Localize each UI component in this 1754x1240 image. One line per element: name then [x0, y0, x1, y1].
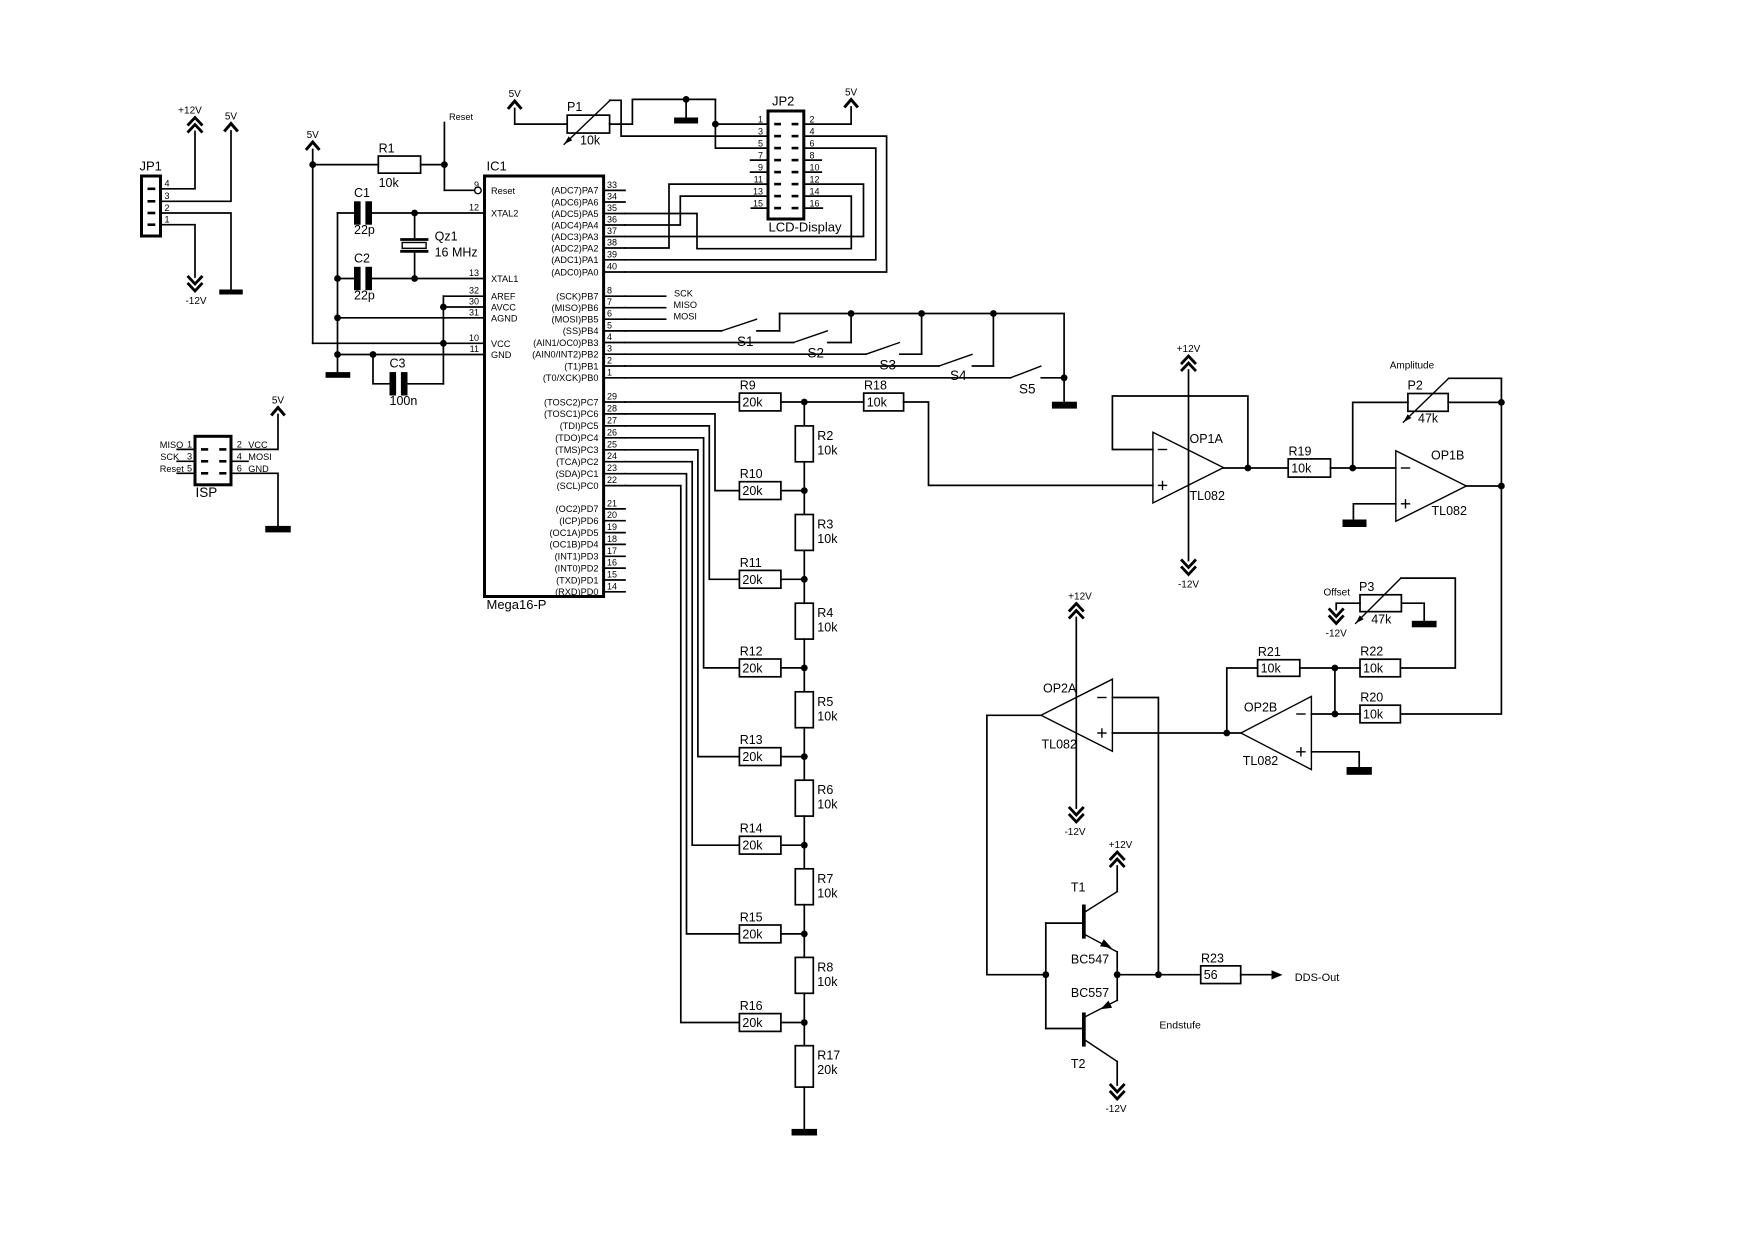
svg-text:OP2B: OP2B	[1244, 701, 1277, 715]
junction P2/output vertical	[1498, 399, 1505, 406]
reset bubble at IC1 pin 9	[475, 187, 482, 194]
svg-text:MISO: MISO	[160, 440, 183, 450]
svg-text:18: 18	[607, 534, 617, 544]
svg-text:R21: R21	[1258, 645, 1281, 659]
svg-text:10k: 10k	[817, 886, 838, 900]
svg-text:5V: 5V	[509, 89, 522, 100]
wire summing node vertical	[1334, 668, 1336, 714]
wire R20 left to OP2B inv	[1311, 713, 1360, 715]
svg-text:37: 37	[607, 226, 617, 236]
wire ladder segment above R7	[803, 845, 805, 869]
svg-text:AGND: AGND	[491, 313, 518, 323]
wire R13 to ladder	[781, 756, 804, 758]
wire PA3 to JP2 pin12	[625, 184, 864, 236]
wire PA4 to JP2 pin13	[625, 196, 768, 225]
svg-text:VCC: VCC	[248, 440, 268, 450]
svg-text:R9: R9	[740, 379, 756, 393]
power +12V (OP2A)	[1068, 592, 1092, 618]
wire ISP pin2 VCC to 5V	[231, 415, 278, 451]
wire gnd stub	[685, 99, 687, 117]
svg-text:10k: 10k	[1261, 662, 1282, 676]
net label SCK	[625, 289, 694, 299]
IC1 pin 27 (TDI)PC5	[560, 415, 625, 431]
wire OP1A supply vertical	[1188, 370, 1190, 561]
svg-text:(AIN1/OC0)PB3: (AIN1/OC0)PB3	[533, 338, 598, 348]
resistor R23 56	[1201, 951, 1241, 983]
svg-text:Qz1: Qz1	[435, 230, 458, 244]
svg-text:(TCA)PC2: (TCA)PC2	[556, 457, 598, 467]
resistor R17 20k	[795, 1046, 840, 1087]
svg-text:+12V: +12V	[178, 106, 202, 117]
svg-text:38: 38	[607, 238, 617, 248]
svg-text:5V: 5V	[272, 396, 285, 407]
svg-text:5V: 5V	[225, 112, 238, 123]
svg-text:32: 32	[469, 286, 479, 296]
ISP pin 3 SCK stub	[160, 452, 195, 463]
svg-text:20k: 20k	[742, 661, 763, 675]
IC1 pin 18 (OC1B)PD4	[549, 534, 625, 550]
svg-text:R18: R18	[864, 379, 887, 393]
wire PB1 to S4	[625, 365, 939, 367]
IC1 pin 24 (TCA)PC2	[556, 451, 625, 467]
wire OP1B output vertical to R20	[1400, 378, 1501, 714]
wire GND row	[338, 354, 485, 356]
svg-text:1: 1	[607, 367, 612, 377]
junction ladder R11	[801, 576, 808, 583]
ground (ladder)	[792, 1129, 818, 1136]
svg-text:1: 1	[187, 440, 192, 450]
IC1 pin 26 (TDO)PC4	[555, 427, 625, 443]
junction S5/bus	[1061, 374, 1068, 381]
wire JP1 pin1 to -12V	[161, 225, 196, 277]
wire AGND row	[338, 317, 485, 319]
svg-text:GND: GND	[491, 350, 512, 360]
svg-text:S5: S5	[1019, 382, 1036, 397]
svg-text:21: 21	[607, 498, 617, 508]
svg-text:AREF: AREF	[491, 292, 516, 302]
wire 5V rail vertical to VCC	[312, 150, 314, 344]
resistor R3 10k	[795, 515, 838, 551]
wire PC2 to R14	[625, 462, 739, 846]
svg-text:R12: R12	[740, 644, 763, 658]
power -12V (JP1)	[185, 277, 206, 307]
junction S3 bus	[918, 310, 925, 317]
junction AGND	[334, 314, 341, 321]
node Reset (label)	[444, 112, 473, 190]
IC1 pin 40 (ADC0)PA0	[551, 262, 625, 278]
wire OP1A output	[1224, 467, 1289, 469]
junction 5V/R1	[309, 161, 316, 168]
potentiometer P3 47k	[1356, 578, 1402, 626]
svg-text:T2: T2	[1071, 1057, 1086, 1071]
svg-text:10k: 10k	[1291, 462, 1312, 476]
svg-text:10k: 10k	[580, 134, 601, 148]
svg-text:10k: 10k	[1363, 662, 1384, 676]
svg-text:C2: C2	[354, 251, 370, 265]
ground (OP2B+)	[1347, 767, 1372, 775]
svg-text:33: 33	[607, 180, 617, 190]
svg-text:Endstufe: Endstufe	[1159, 1019, 1201, 1031]
wire P2 wiper to output	[1449, 377, 1502, 379]
wire reset to IC pin 9	[444, 189, 474, 191]
svg-text:MISO: MISO	[674, 300, 697, 310]
svg-text:OP1A: OP1A	[1190, 432, 1224, 446]
svg-text:20k: 20k	[742, 573, 763, 587]
IC1 left pin 13 XTAL1	[469, 268, 518, 284]
junction ladder R12	[801, 665, 808, 672]
svg-text:R6: R6	[817, 783, 833, 797]
junction ladder R13	[801, 753, 808, 760]
svg-text:VCC: VCC	[491, 339, 511, 349]
wire R9 to ladder	[781, 401, 804, 403]
wire ladder segment above R5	[803, 668, 805, 692]
svg-text:R3: R3	[817, 518, 833, 532]
svg-text:(ICP)PD6: (ICP)PD6	[559, 516, 598, 526]
wire ladder segment below R4	[803, 639, 805, 668]
svg-text:20k: 20k	[742, 1016, 763, 1030]
svg-text:10k: 10k	[817, 709, 838, 723]
svg-text:(ADC5)PA5: (ADC5)PA5	[551, 209, 598, 219]
svg-text:47k: 47k	[1371, 613, 1392, 627]
power -12V (P3)	[1326, 610, 1347, 640]
svg-text:Reset: Reset	[449, 112, 473, 122]
svg-text:10k: 10k	[817, 975, 838, 989]
svg-text:19: 19	[607, 522, 617, 532]
IC1 pin 25 (TMS)PC3	[555, 439, 625, 455]
wire T2 emitter to output	[1116, 975, 1118, 1001]
wire ladder to R18	[804, 401, 863, 403]
potentiometer P1 10k	[564, 100, 610, 148]
svg-text:20k: 20k	[742, 839, 763, 853]
wire S1 to switch bus	[779, 314, 781, 331]
wire R10 to ladder	[781, 490, 804, 492]
junction JP2 pin1	[712, 121, 719, 128]
resistor R22 10k	[1360, 645, 1400, 677]
IC1 pin 7 (MISO)PB6	[552, 297, 625, 313]
wire P3 right to ground	[1401, 603, 1424, 621]
IC1 pin 39 (ADC1)PA1	[551, 249, 625, 265]
wire OP2A output to bases	[987, 715, 1046, 974]
svg-text:5V: 5V	[307, 130, 320, 141]
IC1 pin 14 (RXD)PD0	[555, 581, 625, 597]
JP2 pin15 stub	[751, 207, 768, 209]
svg-text:(OC1A)PD5: (OC1A)PD5	[549, 528, 598, 538]
svg-text:(ADC4)PA4: (ADC4)PA4	[551, 220, 598, 230]
switch S1	[722, 319, 780, 349]
wire S2 to bus	[850, 314, 852, 343]
wire 5V to P1 left	[515, 109, 568, 125]
svg-text:(ADC7)PA7: (ADC7)PA7	[551, 186, 598, 196]
op-amp OP2B TL082 (mirrored)	[1241, 696, 1312, 769]
svg-text:11: 11	[754, 174, 763, 184]
svg-text:XTAL1: XTAL1	[491, 274, 518, 284]
svg-text:35: 35	[607, 203, 617, 213]
wire P3 wiper to R22	[1400, 578, 1455, 668]
svg-text:2: 2	[237, 440, 242, 450]
svg-text:(TDO)PC4: (TDO)PC4	[555, 433, 598, 443]
wire OP2B output to OP2A non-inv	[1112, 732, 1241, 734]
svg-text:3: 3	[187, 452, 192, 462]
svg-text:14: 14	[810, 186, 820, 196]
power 5V (P1)	[509, 89, 522, 108]
svg-text:14: 14	[607, 581, 617, 591]
svg-text:-12V: -12V	[1326, 629, 1347, 640]
svg-text:28: 28	[607, 403, 617, 413]
IC1 pin 15 (TXD)PD1	[556, 570, 625, 586]
svg-text:4: 4	[810, 126, 815, 136]
ground (P3)	[1412, 621, 1437, 628]
wire JP1 pin3 to 5V	[161, 131, 232, 201]
wire OP2A supply vertical	[1075, 618, 1077, 809]
svg-text:+12V: +12V	[1068, 592, 1092, 603]
svg-text:T1: T1	[1071, 881, 1086, 895]
svg-text:R11: R11	[740, 556, 762, 570]
svg-text:13: 13	[469, 268, 479, 278]
svg-text:5: 5	[758, 138, 763, 148]
wire PA1 to JP2 pin6	[625, 148, 876, 260]
svg-text:R7: R7	[817, 872, 833, 886]
IC1 left pin 30 AVCC	[469, 297, 516, 313]
junction R21/R22 node	[1332, 665, 1339, 672]
svg-text:8: 8	[607, 286, 612, 296]
wire C3 left leg	[373, 355, 389, 384]
wire PA2 to JP2 pin11	[625, 184, 768, 248]
svg-text:10: 10	[810, 162, 820, 172]
junction OP1B output	[1498, 483, 1505, 490]
wire PB2 to S3	[625, 353, 866, 355]
JP2 pin10 stub	[804, 171, 822, 173]
svg-text:11: 11	[470, 344, 479, 354]
power -12V (OP1A)	[1178, 561, 1199, 591]
svg-text:22: 22	[607, 475, 617, 485]
IC1 pin 19 (OC1A)PD5	[549, 522, 625, 538]
svg-text:36: 36	[607, 215, 617, 225]
IC1 pin 23 (SDA)PC1	[556, 463, 625, 479]
svg-text:31: 31	[469, 307, 479, 317]
power 5V (JP1)	[225, 112, 238, 131]
svg-text:34: 34	[607, 192, 617, 202]
svg-text:5: 5	[607, 320, 612, 330]
wire R19 to OP1B inv	[1331, 467, 1396, 469]
svg-text:3: 3	[607, 344, 612, 354]
svg-text:-12V: -12V	[185, 296, 206, 307]
IC1 pin 20 (ICP)PD6	[559, 510, 625, 526]
IC1 pin 5 (SS)PB4	[563, 320, 625, 336]
wire PB0 to S5	[625, 377, 1011, 379]
wire ladder to R17	[803, 1023, 805, 1046]
IC1 pin 2 (T1)PB1	[564, 356, 625, 372]
svg-text:R17: R17	[817, 1049, 840, 1063]
wire PC4 to R12	[625, 438, 739, 668]
svg-text:10k: 10k	[817, 798, 838, 812]
svg-text:22p: 22p	[354, 223, 375, 237]
svg-text:4: 4	[165, 179, 170, 189]
svg-text:(ADC1)PA1: (ADC1)PA1	[551, 255, 598, 265]
svg-text:S4: S4	[950, 368, 967, 383]
svg-text:20k: 20k	[742, 750, 763, 764]
svg-text:P3: P3	[1359, 580, 1374, 594]
junction OP2B output/R21	[1223, 730, 1230, 737]
wire P3 left to -12V	[1336, 603, 1360, 609]
op-amp OP2A TL082 (mirrored)	[1041, 679, 1112, 751]
power +12V (T1)	[1109, 840, 1133, 866]
wire PA0 to JP2 pin4	[625, 136, 887, 272]
junction XTAL1/crystal	[411, 275, 418, 282]
svg-text:4: 4	[607, 332, 612, 342]
ISP pin 4 MOSI stub	[231, 452, 272, 463]
ground (OP1B+)	[1343, 520, 1367, 528]
ground (C1/C2/AGND)	[326, 372, 351, 378]
svg-text:16: 16	[810, 198, 820, 208]
svg-text:AVCC: AVCC	[491, 303, 516, 313]
svg-text:OP2A: OP2A	[1043, 682, 1077, 696]
wire cap ground vertical	[337, 213, 339, 372]
IC1 pin 28 (TOSC1)PC6	[544, 403, 625, 419]
wire PA5 to JP2 pin14	[625, 196, 851, 249]
svg-text:OP1B: OP1B	[1431, 449, 1464, 463]
wire ladder segment above R2	[803, 402, 805, 426]
wire base rail vertical	[1045, 923, 1047, 1028]
svg-text:(SS)PB4: (SS)PB4	[563, 326, 599, 336]
wire JP1 pin2 to GND	[161, 213, 232, 290]
switch S5	[1011, 366, 1065, 396]
svg-text:R13: R13	[740, 733, 763, 747]
svg-text:29: 29	[607, 392, 617, 402]
svg-text:IC1: IC1	[487, 159, 507, 174]
svg-text:(T1)PB1: (T1)PB1	[564, 361, 598, 371]
junction GND row	[334, 351, 341, 358]
capacitor C2 22p	[354, 251, 375, 302]
JP2 pin9 stub	[751, 171, 768, 173]
IC1 left pin 11 GND	[470, 344, 512, 360]
junction R1/reset	[441, 161, 448, 168]
wire R15 to ladder	[781, 933, 804, 935]
wire C3 right leg	[408, 383, 444, 385]
resistor R19 10k	[1288, 444, 1330, 477]
wire ladder segment below R2	[803, 462, 805, 491]
resistor R10 20k	[739, 467, 781, 499]
resistor R8 10k	[795, 957, 838, 993]
svg-text:(INT0)PD2: (INT0)PD2	[555, 563, 599, 573]
svg-text:20k: 20k	[742, 484, 763, 498]
svg-text:27: 27	[607, 415, 617, 425]
svg-text:Reset: Reset	[491, 186, 515, 196]
wire R23 to DDS-Out	[1241, 974, 1273, 976]
wire PC6 to R10	[625, 414, 739, 491]
wire R1 to reset node	[421, 164, 445, 166]
IC1 pin 34 (ADC6)PA6	[551, 192, 625, 208]
svg-text:(MISO)PB6: (MISO)PB6	[552, 303, 599, 313]
svg-text:10k: 10k	[1363, 708, 1384, 722]
wire ladder segment below R5	[803, 728, 805, 757]
IC1 left pin 32 AREF	[469, 286, 516, 302]
svg-text:5: 5	[187, 464, 192, 474]
resistor R21 10k	[1258, 645, 1300, 676]
svg-text:R5: R5	[817, 695, 833, 709]
svg-text:(INT1)PD3: (INT1)PD3	[555, 552, 599, 562]
svg-text:10k: 10k	[817, 621, 838, 635]
svg-text:3: 3	[758, 126, 763, 136]
svg-text:P2: P2	[1408, 379, 1423, 393]
junction ladder R10	[801, 487, 808, 494]
svg-text:XTAL2: XTAL2	[491, 209, 518, 219]
resistor R6 10k	[795, 780, 838, 816]
svg-text:2: 2	[165, 203, 170, 213]
wire P2 right to output	[1448, 401, 1501, 403]
svg-text:(SCK)PB7: (SCK)PB7	[556, 292, 598, 302]
power 5V (JP2 pin2)	[845, 88, 858, 107]
op-amp OP1B TL082	[1396, 449, 1467, 522]
svg-text:P1: P1	[567, 100, 582, 114]
wire R11 to ladder	[781, 578, 804, 580]
svg-text:(ADC0)PA0: (ADC0)PA0	[551, 267, 598, 277]
svg-text:(SCL)PC0: (SCL)PC0	[557, 481, 599, 491]
connector JP1	[140, 159, 170, 237]
junction OP1A output/feedback	[1245, 465, 1252, 472]
svg-text:10k: 10k	[379, 176, 400, 190]
svg-text:TL082: TL082	[1042, 738, 1077, 752]
svg-text:1: 1	[758, 114, 763, 124]
svg-text:R16: R16	[740, 999, 763, 1013]
wire ladder segment above R3	[803, 491, 805, 515]
IC1 left pin 12 XTAL2	[469, 203, 518, 219]
IC1 pin 8 (SCK)PB7	[556, 286, 625, 302]
svg-text:10k: 10k	[817, 532, 838, 546]
svg-text:R23: R23	[1201, 951, 1224, 965]
svg-text:ISP: ISP	[196, 485, 218, 500]
power -12V (OP2A)	[1064, 808, 1085, 838]
svg-text:20k: 20k	[817, 1063, 838, 1077]
junction P1 gnd stub	[683, 96, 690, 103]
svg-text:2: 2	[810, 114, 815, 124]
resistor R9 20k	[739, 379, 781, 411]
wire R16 to ladder	[781, 1022, 804, 1024]
svg-text:13: 13	[753, 186, 763, 196]
resistor R7 10k	[795, 869, 838, 905]
resistor R14 20k	[739, 822, 781, 854]
svg-text:R22: R22	[1360, 645, 1383, 659]
JP2 pin7 stub	[751, 159, 768, 161]
svg-text:BC557: BC557	[1071, 986, 1109, 1000]
svg-text:8: 8	[810, 150, 815, 160]
wire R22 left to node	[1335, 667, 1360, 669]
wire OP1A feedback loop	[1112, 396, 1248, 469]
resistor R1 10k	[378, 141, 420, 190]
op-amp OP1A TL082	[1153, 432, 1225, 503]
svg-text:(TXD)PD1: (TXD)PD1	[556, 575, 598, 585]
junction GND/C3	[370, 351, 377, 358]
svg-text:R8: R8	[817, 960, 833, 974]
svg-text:3: 3	[165, 191, 170, 201]
wire ladder segment above R4	[803, 579, 805, 603]
svg-text:25: 25	[607, 439, 617, 449]
svg-text:R19: R19	[1289, 444, 1312, 458]
svg-text:10k: 10k	[867, 396, 888, 410]
svg-text:TL082: TL082	[1432, 504, 1467, 518]
crystal Qz1 16 MHz	[402, 213, 478, 279]
resistor R11 20k	[739, 556, 781, 588]
IC1 pin 17 (INT1)PD3	[555, 546, 625, 562]
svg-text:7: 7	[607, 297, 612, 307]
IC1 pin 6 (MOSI)PB5	[552, 309, 625, 325]
wire ladder segment above R8	[803, 934, 805, 958]
svg-text:BC547: BC547	[1071, 953, 1109, 967]
wire to JP2 pin1/pin5	[715, 99, 768, 148]
svg-text:17: 17	[607, 546, 617, 556]
svg-text:(TOSC2)PC7: (TOSC2)PC7	[544, 397, 598, 407]
resistor R2 10k	[795, 426, 838, 462]
potentiometer P2 47k Amplitude	[1390, 361, 1449, 426]
